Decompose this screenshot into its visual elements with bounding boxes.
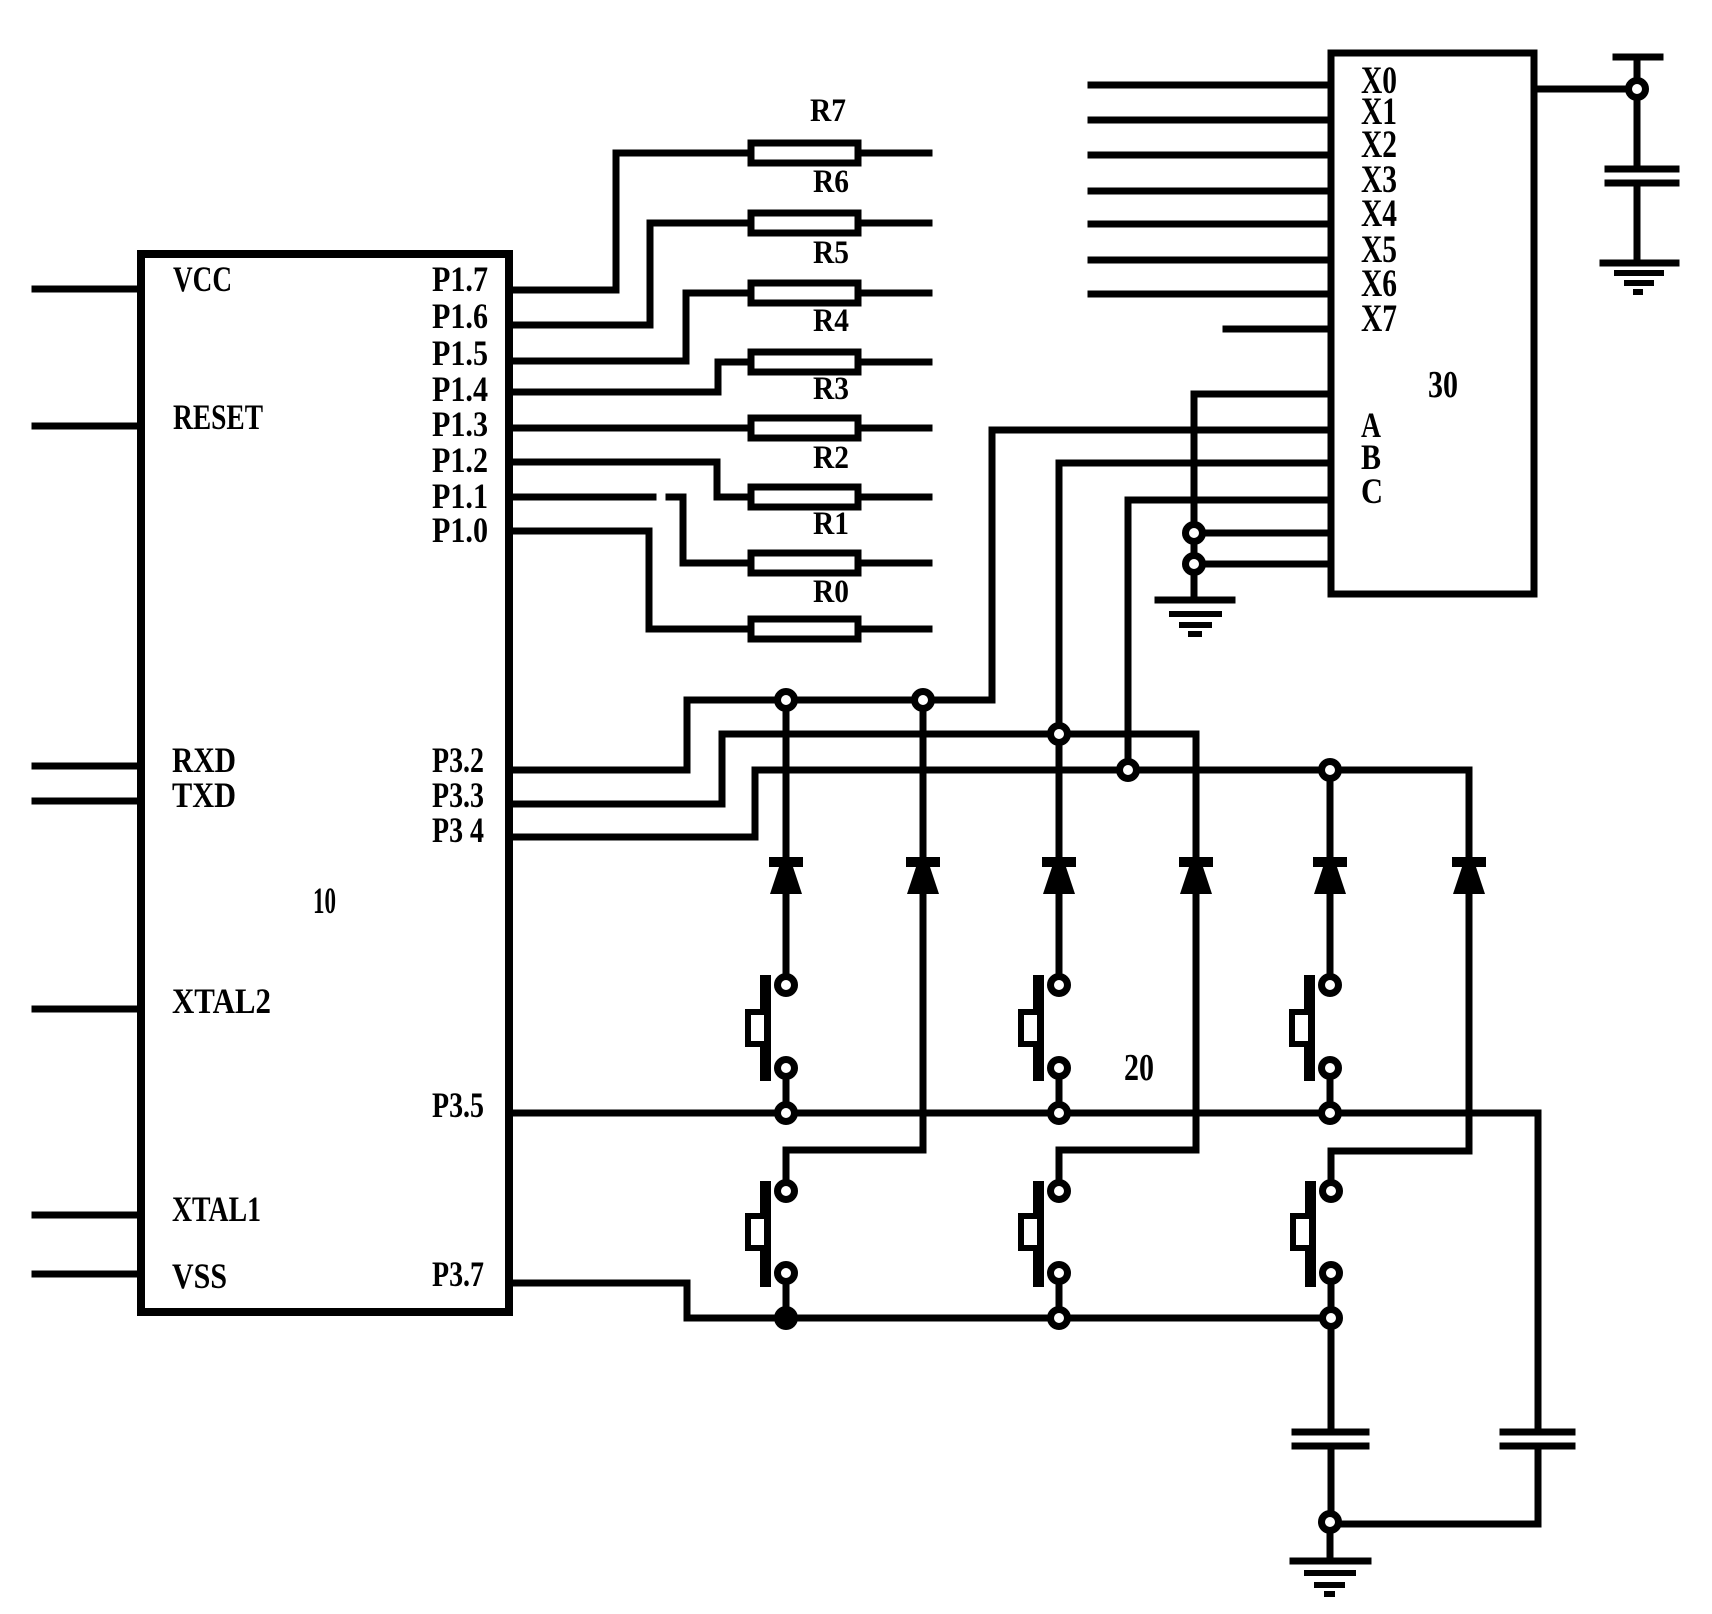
resistor R2	[751, 487, 858, 507]
diode D3	[1042, 857, 1076, 894]
svg-text:P1.3: P1.3	[432, 404, 488, 444]
wire select B into U30	[1059, 460, 1331, 467]
resistor R6	[751, 213, 858, 233]
wire row3 to diode D5	[1327, 770, 1334, 857]
svg-text:VCC: VCC	[173, 259, 232, 299]
wire P3.5 row	[509, 1110, 1538, 1117]
wire R3 right stub	[858, 425, 929, 432]
wire C2b down to node wire	[1535, 1450, 1542, 1524]
svg-text:XTAL1: XTAL1	[172, 1189, 261, 1229]
wire P3.2 stub	[509, 700, 687, 770]
ground under U30	[1158, 597, 1232, 604]
resistor R5	[751, 283, 858, 303]
svg-text:P1.0: P1.0	[432, 510, 488, 550]
switch S1	[748, 975, 795, 1101]
diode D5	[1313, 857, 1347, 894]
capacitor C2b	[1503, 1432, 1572, 1446]
wire X6 input	[1091, 291, 1331, 298]
wire R7 right stub	[858, 150, 929, 157]
diode D1	[769, 857, 803, 894]
wire P3.7 stub	[509, 1283, 687, 1318]
IC U10 box	[141, 254, 509, 1312]
node P3.5/S1	[778, 1105, 795, 1122]
wire P3.7 row	[687, 1315, 1331, 1322]
node P3.7/S6	[1323, 1310, 1340, 1327]
wire C2a to ground node	[1328, 1450, 1335, 1511]
node on ground bus (pin5)	[1186, 525, 1203, 542]
wire R2 right stub	[858, 494, 929, 501]
node row2/D3	[1051, 726, 1068, 743]
node P3.5/S2	[1051, 1105, 1068, 1122]
wire select A into U30	[992, 427, 1331, 434]
wire ground node to C2b	[1342, 1521, 1538, 1528]
svg-text:P3.7: P3.7	[432, 1254, 484, 1294]
svg-text:R4: R4	[813, 303, 849, 339]
wire P1.4 to R4	[509, 362, 751, 392]
wire ground bus vertical at U30	[1191, 394, 1198, 597]
wire U30 grounded pin 5	[1194, 530, 1331, 537]
node row3/C select	[1120, 762, 1137, 779]
switch S2	[1021, 975, 1068, 1101]
wire C1 to ground	[1634, 187, 1641, 259]
wire keypad row1	[687, 697, 992, 704]
wire select B vertical to diode D3	[1056, 463, 1063, 857]
switch S3	[1292, 975, 1339, 1101]
wire X7 input	[1226, 326, 1331, 333]
svg-text:P1.6: P1.6	[432, 296, 488, 336]
VCC T-bar symbol	[1616, 57, 1660, 78]
wire node to ground	[1327, 1534, 1334, 1558]
wire U30 grounded pin 6	[1194, 561, 1331, 568]
capacitor C2a	[1295, 1432, 1366, 1446]
node on ground bus (pin6)	[1186, 556, 1203, 573]
wire row1 to diode D2	[920, 700, 927, 857]
wire D3 to switch S2	[1056, 894, 1063, 973]
switch S5	[1021, 1181, 1068, 1306]
svg-text:TXD: TXD	[172, 775, 236, 815]
wire TXD left stub	[35, 798, 141, 805]
node P3.7/S4 (filled)	[774, 1306, 798, 1330]
wire D6 down and jog to switch S6	[1331, 894, 1469, 1179]
wire P1.0 to R0	[509, 531, 751, 629]
wire R4 right stub	[858, 359, 929, 366]
svg-text:R0: R0	[813, 574, 849, 610]
wire X5 input	[1091, 257, 1331, 264]
svg-text:RXD: RXD	[172, 740, 236, 780]
capacitor C1	[1608, 169, 1676, 183]
wire P1.7 to R7	[509, 153, 751, 290]
wire D4 down and jog to switch S5	[1059, 894, 1196, 1179]
wire select C into U30	[1128, 497, 1331, 504]
wire X4 input	[1091, 221, 1331, 228]
svg-text:XTAL2: XTAL2	[172, 981, 271, 1021]
wire XTAL2 left stub	[35, 1006, 141, 1013]
svg-text:X7: X7	[1361, 297, 1397, 340]
node row1/D1	[778, 692, 795, 709]
svg-text:P1.4: P1.4	[432, 369, 488, 409]
wire U30 grounded pin (top)	[1194, 391, 1331, 398]
svg-text:C: C	[1361, 471, 1383, 511]
resistor R1	[751, 553, 858, 573]
wire X0 input	[1091, 82, 1331, 89]
svg-text:R1: R1	[813, 506, 849, 542]
resistor R3	[751, 418, 858, 438]
wire P3.4 stub	[509, 770, 755, 837]
wire node to capacitor C1	[1634, 100, 1641, 165]
wire X2 input	[1091, 152, 1331, 159]
wire select C vertical to row3	[1125, 500, 1132, 770]
wire VSS left stub	[35, 1271, 141, 1278]
svg-text:R6: R6	[813, 164, 849, 200]
wire P1.6 to R6	[509, 223, 751, 325]
wire row1 to diode D1	[783, 700, 790, 857]
svg-text:20: 20	[1124, 1047, 1154, 1089]
wire keypad row3	[755, 767, 1469, 774]
svg-text:RESET: RESET	[173, 397, 263, 437]
wire P3.5 corner down to capacitor C2b	[1535, 1113, 1542, 1429]
node row1/D2	[915, 692, 932, 709]
svg-text:P3.3: P3.3	[432, 775, 484, 815]
wire RXD left stub	[35, 763, 141, 770]
node VCC (open circle)	[1629, 81, 1646, 98]
switch S4	[748, 1181, 795, 1306]
svg-text:R2: R2	[813, 440, 849, 476]
svg-text:10: 10	[313, 881, 336, 922]
svg-text:VSS: VSS	[172, 1256, 227, 1296]
wire VCC left stub	[35, 286, 141, 293]
ground bottom	[1293, 1558, 1368, 1565]
resistor R0	[751, 619, 858, 639]
switch S6	[1293, 1181, 1340, 1306]
wire XTAL1 left stub	[35, 1212, 141, 1219]
diode D2	[906, 857, 940, 894]
wire P1.5 to R5	[509, 293, 751, 361]
wire RESET left stub	[35, 423, 141, 430]
svg-text:30: 30	[1428, 364, 1458, 406]
node ground junction	[1322, 1514, 1339, 1531]
wire P1.2 to R2	[509, 462, 751, 497]
svg-text:R3: R3	[813, 371, 849, 407]
IC U30 box	[1331, 53, 1534, 594]
wire P1.1 to R1 (with scan gap)	[509, 497, 751, 563]
wire R5 right stub	[858, 290, 929, 297]
ground under C1	[1603, 260, 1676, 267]
svg-text:P3.2: P3.2	[432, 740, 484, 780]
svg-text:P1.2: P1.2	[432, 440, 488, 480]
wire U30 pin to VCC node	[1534, 86, 1637, 93]
wire R1 right stub	[858, 560, 929, 567]
resistor R7	[751, 143, 858, 163]
diode D4	[1179, 857, 1213, 894]
wire P3.3 stub	[509, 734, 722, 804]
resistor R4	[751, 352, 858, 372]
svg-text:P1.7: P1.7	[432, 259, 488, 299]
svg-text:R5: R5	[813, 235, 849, 271]
wire X3 input	[1091, 188, 1331, 195]
wire select A vertical	[989, 430, 996, 700]
node P3.7/S5	[1051, 1310, 1068, 1327]
diode D6	[1452, 857, 1486, 894]
wire row2 corner down to D4	[1193, 734, 1200, 857]
wire R0 right stub	[858, 626, 929, 633]
svg-text:R7: R7	[810, 93, 846, 129]
wire D5 to switch S3	[1327, 894, 1334, 973]
wire D1 to switch S1	[783, 894, 790, 973]
wire P1.3 to R3	[509, 425, 751, 432]
svg-text:P3.5: P3.5	[432, 1085, 484, 1125]
node P3.5/S3	[1322, 1105, 1339, 1122]
node row3/D5	[1322, 762, 1339, 779]
svg-text:P3 4: P3 4	[432, 810, 484, 850]
wire keypad row2	[722, 731, 1196, 738]
wire D2 down and jog to switch S4	[786, 894, 923, 1179]
wire R6 right stub	[858, 220, 929, 227]
wire X1 input	[1091, 117, 1331, 124]
svg-text:P1.5: P1.5	[432, 333, 488, 373]
wire row3 corner down to D6	[1466, 770, 1473, 857]
wire P3.7 row to capacitor C2a	[1328, 1330, 1335, 1429]
